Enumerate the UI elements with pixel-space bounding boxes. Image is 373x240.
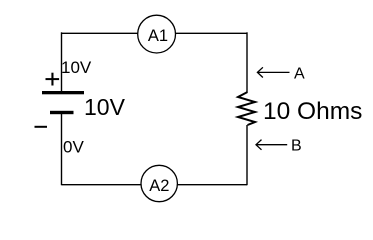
svg-text:10 Ohms: 10 Ohms xyxy=(263,98,362,125)
svg-text:10V: 10V xyxy=(84,94,126,120)
svg-text:10V: 10V xyxy=(61,58,92,77)
svg-text:0V: 0V xyxy=(63,138,84,157)
svg-text:A1: A1 xyxy=(148,27,168,45)
svg-text:A2: A2 xyxy=(149,177,169,195)
svg-text:A: A xyxy=(294,66,305,83)
svg-text:B: B xyxy=(291,138,302,155)
